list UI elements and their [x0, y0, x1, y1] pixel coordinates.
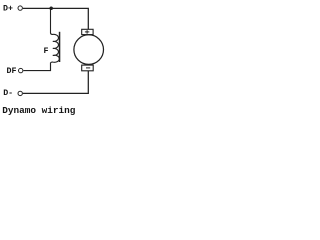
svg-text:D+: D+ [3, 4, 13, 13]
svg-text:Dynamo wiring: Dynamo wiring [2, 105, 76, 116]
svg-text:F: F [44, 47, 49, 56]
svg-text:DF: DF [7, 67, 17, 76]
svg-text:D-: D- [3, 89, 13, 98]
